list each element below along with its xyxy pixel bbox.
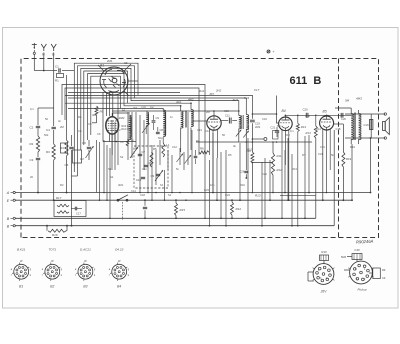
- wire riser bus2: [333, 130, 335, 226]
- value label 30: [210, 183, 215, 187]
- wire bus riser 14: [304, 136, 306, 219]
- svg-text:2H2: 2H2: [215, 89, 222, 93]
- wire middle v13: [143, 120, 145, 170]
- socket label mid 3: [84, 259, 87, 263]
- value label 2: [45, 117, 48, 121]
- value label 27: [292, 167, 297, 171]
- value label 17: [316, 127, 321, 131]
- svg-text:4M7: 4M7: [92, 113, 98, 117]
- socket pin labels 4: [109, 268, 130, 277]
- svg-text:5n: 5n: [176, 167, 179, 171]
- value label 12: [224, 109, 229, 113]
- wire middle v1: [96, 140, 98, 193]
- wire wrap 2: [78, 66, 247, 158]
- wire bus riser 8: [261, 162, 263, 227]
- terminal spk1: [384, 113, 386, 115]
- wire middle v5: [109, 148, 111, 218]
- svg-text:C11: C11: [225, 114, 230, 118]
- svg-text:C20: C20: [303, 108, 309, 112]
- bus A dots: [37, 192, 310, 194]
- svg-text:S2: S2: [120, 155, 124, 159]
- wire h142: [196, 141, 312, 143]
- svg-text:D4.23: D4.23: [115, 248, 124, 252]
- svg-text:C9: C9: [151, 174, 155, 178]
- label B5: [323, 110, 327, 114]
- volume pot R11: [271, 141, 282, 193]
- svg-text:C17: C17: [76, 212, 81, 216]
- svg-text:R1: R1: [55, 79, 59, 83]
- wire h115: [285, 114, 351, 116]
- tube B3 IF amp: [207, 116, 221, 130]
- svg-text:R5: R5: [228, 153, 232, 157]
- wire mid extra h1: [68, 92, 180, 94]
- wire middle v18: [164, 170, 166, 200]
- svg-text:C17: C17: [254, 88, 260, 92]
- svg-text:R6: R6: [200, 147, 204, 151]
- svg-text:A: A: [6, 191, 10, 195]
- wire v252 bot: [252, 162, 254, 194]
- svg-text:S2: S2: [110, 175, 114, 179]
- wire riser x323: [322, 129, 324, 201]
- wire v66 down: [66, 156, 68, 193]
- wire bus riser 2: [212, 133, 214, 193]
- svg-text:C11: C11: [142, 167, 147, 171]
- value label 51: [78, 115, 82, 119]
- capacitor C27: [194, 150, 198, 164]
- svg-text:10n: 10n: [210, 183, 215, 187]
- trimmer arrow S1a: [177, 154, 184, 163]
- svg-text:4M3: 4M3: [356, 97, 362, 101]
- wire B1 stub nw: [98, 65, 104, 71]
- svg-text:Pickup: Pickup: [357, 288, 366, 292]
- svg-text:C5: C5: [124, 61, 128, 65]
- trimmer arrow S1b: [185, 155, 192, 164]
- socket label bottom 1: [19, 285, 23, 289]
- tube socket B3: [76, 263, 93, 281]
- power socket P1: [313, 264, 335, 285]
- wire B4 pins: [282, 130, 289, 219]
- svg-text:R4: R4: [196, 139, 200, 143]
- wire B3 pins: [210, 129, 218, 193]
- resistor R5: [150, 147, 157, 167]
- capacitor C9: [151, 174, 161, 178]
- wire middle v14: [147, 125, 149, 193]
- svg-text:B2: B2: [50, 285, 54, 289]
- svg-text:R3: R3: [117, 128, 121, 132]
- svg-text:0,1: 0,1: [290, 129, 294, 133]
- svg-text:R14: R14: [306, 131, 312, 135]
- svg-text:4H2: 4H2: [188, 98, 194, 102]
- drawing number R90246A: [356, 239, 374, 245]
- wire wrap 5: [88, 74, 181, 140]
- resistor R17: [56, 196, 69, 207]
- svg-text:4H1: 4H1: [176, 100, 182, 104]
- component box K2: [61, 143, 68, 153]
- wire middle v15: [151, 145, 153, 200]
- P2 wire left: [341, 255, 352, 270]
- wire middle v7: [114, 122, 116, 170]
- ground terminal circle: [33, 50, 35, 54]
- svg-text:R5: R5: [153, 147, 157, 151]
- wire bus riser 12: [287, 138, 289, 201]
- chassis dashed border: [21, 59, 379, 238]
- wire riser E: [351, 144, 353, 201]
- capacitor C3: [30, 152, 41, 162]
- value label 41: [222, 133, 225, 137]
- svg-text:R13: R13: [255, 194, 261, 198]
- svg-text:R#: R#: [382, 268, 386, 272]
- value label 19: [228, 153, 232, 157]
- wire B1-B2 v1: [102, 92, 104, 142]
- terminal E: [7, 199, 15, 203]
- resistor R12v: [231, 199, 242, 219]
- capacitor C19: [250, 120, 260, 125]
- label B3: [210, 93, 214, 97]
- value label 36: [117, 128, 121, 132]
- resistor R10: [247, 148, 254, 164]
- svg-text:B1: B1: [19, 285, 23, 289]
- svg-text:C10: C10: [136, 178, 142, 182]
- svg-text:50n: 50n: [277, 124, 282, 128]
- value label 49: [350, 145, 355, 149]
- component box K1: [73, 150, 82, 163]
- svg-text:S1: S1: [168, 193, 172, 197]
- value label 34: [80, 157, 84, 161]
- P2 label: [357, 288, 366, 292]
- svg-text:26V: 26V: [320, 290, 328, 294]
- wire middle v16: [155, 150, 157, 185]
- value label 37: [133, 106, 137, 110]
- svg-text:R19: R19: [346, 157, 352, 161]
- wire middle v9: [127, 112, 129, 160]
- antenna B symbol: [51, 44, 56, 57]
- label S1: [176, 98, 194, 105]
- svg-text:20: 20: [30, 175, 33, 179]
- bus B2 dots: [46, 225, 293, 227]
- bus E: [16, 199, 353, 201]
- value label 20: [246, 149, 251, 153]
- value label 54: [30, 175, 33, 179]
- resistor R16: [46, 225, 68, 237]
- wire B5 anode right: [334, 124, 344, 146]
- value label 58: [225, 193, 230, 197]
- P2 inner labels: [355, 268, 366, 281]
- svg-text:C6: C6: [82, 141, 86, 145]
- capacitor C22: [341, 113, 343, 118]
- value label 4: [78, 129, 82, 133]
- svg-text:R2: R2: [30, 142, 34, 146]
- svg-text:C3: C3: [30, 158, 34, 162]
- value label 44: [262, 117, 267, 121]
- wire B1-B2 v4: [112, 92, 114, 116]
- wire S1 leads: [181, 132, 191, 152]
- socket label bottom 4: [117, 285, 121, 289]
- svg-text:S1: S1: [160, 183, 164, 187]
- tube B4 AF: [279, 117, 293, 131]
- wire mid extra h3: [65, 94, 138, 96]
- resistor R1: [55, 74, 64, 83]
- svg-text:R15: R15: [180, 208, 186, 212]
- wire B3 grid: [194, 120, 207, 122]
- wire bus riser 11: [284, 150, 286, 193]
- svg-text:1n: 1n: [170, 115, 173, 119]
- svg-text:C13: C13: [197, 128, 202, 132]
- tube socket B1: [12, 263, 29, 281]
- wire middle v8: [117, 96, 119, 165]
- wire mid extra h5: [65, 102, 128, 104]
- wire mid extra h2: [112, 110, 239, 112]
- resistor R6: [199, 147, 209, 154]
- svg-text:C18: C18: [305, 114, 310, 118]
- socket pin labels 1: [11, 268, 32, 277]
- value label 56: [131, 189, 136, 193]
- output transformer T2: [335, 108, 361, 144]
- wire h195: [280, 195, 315, 197]
- svg-text:50: 50: [222, 133, 225, 137]
- wire middle v12: [139, 115, 141, 193]
- socket label bottom 2: [50, 285, 54, 289]
- svg-text:C16: C16: [246, 149, 251, 153]
- coil L3: [146, 112, 148, 134]
- value label 32: [318, 152, 323, 156]
- trimmer arrow S2a: [236, 130, 242, 137]
- svg-text:R9: R9: [100, 110, 104, 114]
- value label 50: [88, 122, 92, 126]
- wire left chain down: [37, 161, 39, 194]
- svg-text:B3: B3: [83, 285, 87, 289]
- wire middle v11: [135, 112, 137, 150]
- power socket P2: [348, 261, 374, 284]
- svg-text:2H1: 2H1: [198, 89, 205, 93]
- wire B5 grid: [326, 115, 328, 117]
- wire B4 anode: [285, 115, 287, 118]
- P1 resistor box: [320, 250, 329, 264]
- svg-text:R12: R12: [285, 133, 290, 137]
- value label 48: [331, 153, 334, 157]
- svg-text:2M2: 2M2: [255, 125, 261, 129]
- tube B2 pentode: [106, 113, 130, 134]
- wire switch link: [122, 202, 124, 220]
- volume box: [273, 131, 279, 140]
- svg-text:C#: C#: [382, 276, 386, 280]
- svg-text:C7: C7: [142, 150, 146, 154]
- svg-text:C15: C15: [224, 109, 229, 113]
- svg-text:4M2: 4M2: [119, 116, 125, 120]
- P2 right box: [369, 268, 386, 280]
- bus A: [16, 192, 371, 194]
- value label 7: [131, 138, 134, 142]
- wire antenna B lead: [53, 53, 55, 96]
- value label 11: [205, 129, 210, 133]
- wire middle v20: [171, 155, 173, 193]
- svg-text:C18: C18: [336, 127, 341, 131]
- value label 10: [196, 139, 200, 143]
- value label 3: [60, 125, 64, 129]
- wire B1 stub se: [124, 91, 129, 96]
- wire B1 stub ne: [124, 64, 131, 71]
- socket pin labels 3: [75, 268, 96, 277]
- socket label top 2: [48, 248, 56, 252]
- svg-text:R6: R6: [78, 115, 82, 119]
- label row mid: [198, 88, 260, 93]
- socket label mid 1: [20, 259, 23, 263]
- svg-text:R16: R16: [52, 233, 58, 237]
- capacitor C7: [138, 150, 146, 156]
- wire bus riser 9: [264, 158, 266, 219]
- svg-text:+: +: [273, 50, 275, 54]
- wire B1-B2 v3: [109, 92, 111, 116]
- svg-text:1n: 1n: [131, 138, 134, 142]
- svg-text:C9: C9: [120, 140, 124, 144]
- value label 39: [170, 115, 173, 119]
- value label 38: [150, 105, 154, 109]
- label B1: [100, 64, 104, 68]
- svg-text:4n: 4n: [58, 119, 61, 123]
- svg-text:50k: 50k: [44, 133, 49, 137]
- socket label top 3: [80, 248, 91, 252]
- svg-text:C5: C5: [88, 122, 92, 126]
- wire B3 anode: [213, 110, 215, 116]
- svg-text:B5: B5: [323, 110, 327, 114]
- chassis dashed divider: [338, 59, 340, 238]
- svg-text:S3: S3: [108, 167, 112, 171]
- resistor R3: [46, 144, 55, 201]
- svg-text:C8: C8: [78, 129, 82, 133]
- wire bus riser 5: [225, 150, 227, 227]
- terminal B2: [7, 224, 15, 228]
- wire B5 pins: [326, 129, 331, 193]
- label C18: [336, 127, 341, 131]
- bus E dots: [53, 199, 290, 201]
- capacitor C17: [71, 207, 82, 216]
- resistor R14: [306, 115, 318, 139]
- value label 25: [176, 167, 179, 171]
- svg-text:B4: B4: [282, 109, 286, 113]
- svg-text:R10: R10: [240, 183, 245, 187]
- mains box: [54, 201, 86, 217]
- svg-text:C21: C21: [271, 126, 276, 130]
- label R13: [255, 194, 261, 198]
- svg-text:R14: R14: [316, 127, 321, 131]
- wire middle v23: [187, 112, 189, 165]
- value label 23: [142, 167, 147, 171]
- capacitor C6: [82, 140, 91, 160]
- svg-text:4H3: 4H3: [233, 98, 239, 102]
- svg-text:C20: C20: [341, 117, 346, 121]
- value label 14: [277, 124, 282, 128]
- svg-text:1M1: 1M1: [141, 106, 147, 110]
- IF transformer S1: [180, 102, 194, 140]
- wire antenna H lead: [43, 53, 45, 71]
- value label 35: [97, 132, 101, 136]
- resistor R17b: [57, 211, 69, 214]
- wire h162: [252, 162, 273, 164]
- svg-text:B4: B4: [117, 285, 121, 289]
- svg-text:TO71: TO71: [48, 248, 56, 252]
- value label 57: [168, 193, 172, 197]
- socket label mid 2: [51, 259, 54, 263]
- P1 wire left: [308, 272, 314, 281]
- resistor R15v: [175, 199, 186, 219]
- svg-text:C22: C22: [262, 172, 267, 176]
- svg-text:C2: C2: [150, 105, 154, 109]
- value label 28: [118, 183, 124, 187]
- value label 47: [320, 145, 325, 149]
- wire v74: [73, 163, 75, 172]
- svg-text:R17: R17: [56, 196, 62, 200]
- svg-text:C8: C8: [160, 128, 164, 132]
- wire spk top: [345, 113, 385, 115]
- wire big box: [62, 85, 205, 219]
- svg-text:R?: R?: [302, 153, 306, 157]
- label S2: [233, 96, 250, 102]
- label B2: [119, 116, 125, 120]
- antenna H symbol: [41, 44, 46, 57]
- resistor R4: [60, 140, 68, 156]
- wire B1-B2 v2: [106, 92, 108, 116]
- svg-text:C9: C9: [156, 116, 160, 120]
- terminal A: [6, 191, 15, 195]
- wire v77: [72, 158, 78, 176]
- wire bus riser 15: [308, 135, 310, 193]
- value label 1: [30, 107, 34, 111]
- wire antenna junction: [34, 70, 44, 72]
- wire B2 pins: [110, 134, 116, 156]
- capacitor C23: [152, 115, 160, 130]
- socket label top 1: [17, 248, 26, 252]
- switch S4: [117, 195, 128, 201]
- capacitor C5: [65, 135, 74, 167]
- svg-text:5M: 5M: [345, 99, 350, 103]
- trimmer arrow S2b: [243, 131, 249, 138]
- svg-text:C14: C14: [205, 129, 210, 133]
- svg-text:C6: C6: [97, 132, 101, 136]
- title 611 B: [290, 75, 322, 87]
- bus B2: [16, 225, 335, 227]
- svg-text:R90246A: R90246A: [356, 239, 374, 245]
- svg-text:R3: R3: [46, 150, 50, 154]
- terminal phi plus on top border: [267, 50, 275, 54]
- wire riser A: [370, 137, 372, 193]
- wire wrap 6: [91, 76, 163, 135]
- wire B1 stub e: [128, 80, 138, 82]
- terminal B1: [7, 217, 15, 221]
- value label 5: [92, 113, 98, 117]
- socket label top 4: [115, 248, 124, 252]
- svg-text:611 B: 611 B: [290, 75, 322, 87]
- value label 52: [58, 119, 61, 123]
- svg-text:R13: R13: [301, 125, 307, 129]
- IF transformer S2: [238, 109, 249, 143]
- wire middle v22: [183, 152, 185, 170]
- capacitor C8: [144, 161, 152, 167]
- grid cap C21: [271, 126, 280, 138]
- svg-text:C14: C14: [131, 189, 136, 193]
- capacitor C24: [156, 127, 163, 134]
- label B2 values: [122, 125, 132, 131]
- wire v252 top: [252, 113, 254, 119]
- wire mid extra h4: [68, 97, 135, 99]
- value label 53: [44, 133, 49, 137]
- value label 9: [172, 145, 177, 149]
- trimmer arrow T2: [130, 147, 138, 158]
- svg-text:C5: C5: [65, 163, 69, 167]
- svg-text:R2: R2: [60, 183, 64, 187]
- wire middle v2: [99, 142, 101, 200]
- trimmer arrow T1: [86, 146, 94, 158]
- wire middle v24: [191, 130, 193, 193]
- svg-text:R19: R19: [350, 145, 355, 149]
